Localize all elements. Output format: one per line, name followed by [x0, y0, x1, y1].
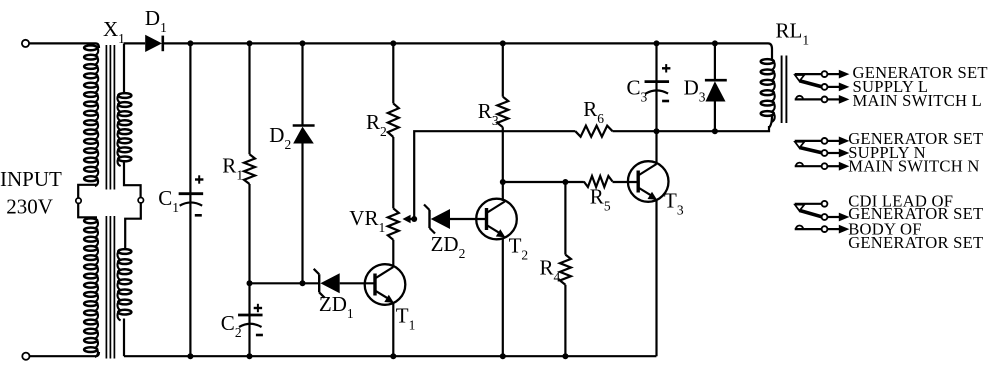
svg-text:MAIN SWITCH L: MAIN SWITCH L: [853, 91, 983, 110]
svg-text:GENERATOR SET: GENERATOR SET: [848, 233, 983, 252]
svg-text:INPUT: INPUT: [0, 167, 62, 191]
svg-text:MAIN SWITCH N: MAIN SWITCH N: [848, 157, 979, 176]
svg-text:230V: 230V: [6, 195, 53, 219]
